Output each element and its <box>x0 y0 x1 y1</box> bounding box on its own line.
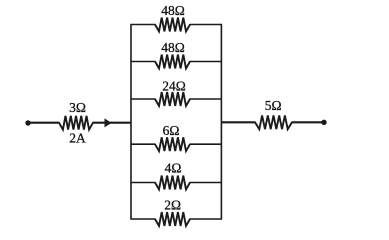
resistor 24ohm branch 3 zigzag <box>155 92 190 106</box>
resistor 48ohm branch 1 zigzag <box>155 18 190 32</box>
current direction arrow <box>105 118 112 127</box>
wire left lead <box>28 122 60 124</box>
branch 6 wire right <box>190 218 223 220</box>
wire resistor to left bus <box>93 122 132 124</box>
right bus wire <box>220 25 222 220</box>
branch 1 wire right <box>190 24 223 26</box>
branch 2 wire right <box>190 61 222 63</box>
branch 6 wire left <box>130 218 155 220</box>
resistor 2ohm branch 6 zigzag <box>155 212 190 226</box>
svg-text:4Ω: 4Ω <box>165 161 182 176</box>
branch 2 wire left <box>131 61 156 63</box>
svg-text:6Ω: 6Ω <box>163 123 180 138</box>
svg-text:24Ω: 24Ω <box>162 78 186 93</box>
branch 3 wire right <box>190 98 222 100</box>
svg-text:48Ω: 48Ω <box>161 3 185 18</box>
branch 5 wire right <box>190 182 222 184</box>
branch 3 wire left <box>131 98 156 100</box>
resistor 48ohm branch 2 zigzag <box>155 55 190 69</box>
resistor 5ohm zigzag <box>255 115 292 129</box>
resistor 4ohm branch 5 zigzag <box>155 176 190 190</box>
branch 4 wire right <box>190 143 222 145</box>
resistor 3ohm zigzag <box>59 116 93 130</box>
branch 5 wire left <box>131 182 156 184</box>
svg-text:2A: 2A <box>69 131 86 146</box>
svg-text:2Ω: 2Ω <box>164 197 181 212</box>
wire right bus to 5ohm <box>221 121 255 123</box>
svg-text:3Ω: 3Ω <box>69 100 86 115</box>
wire 5ohm to right terminal <box>292 121 325 123</box>
svg-text:5Ω: 5Ω <box>265 98 282 113</box>
branch 1 wire left <box>130 24 155 26</box>
resistor 6ohm branch 4 zigzag <box>155 137 190 151</box>
svg-text:48Ω: 48Ω <box>161 40 185 55</box>
left terminal node <box>25 120 30 125</box>
branch 4 wire left <box>131 143 156 145</box>
right terminal node <box>321 120 326 125</box>
left bus wire <box>130 25 132 220</box>
